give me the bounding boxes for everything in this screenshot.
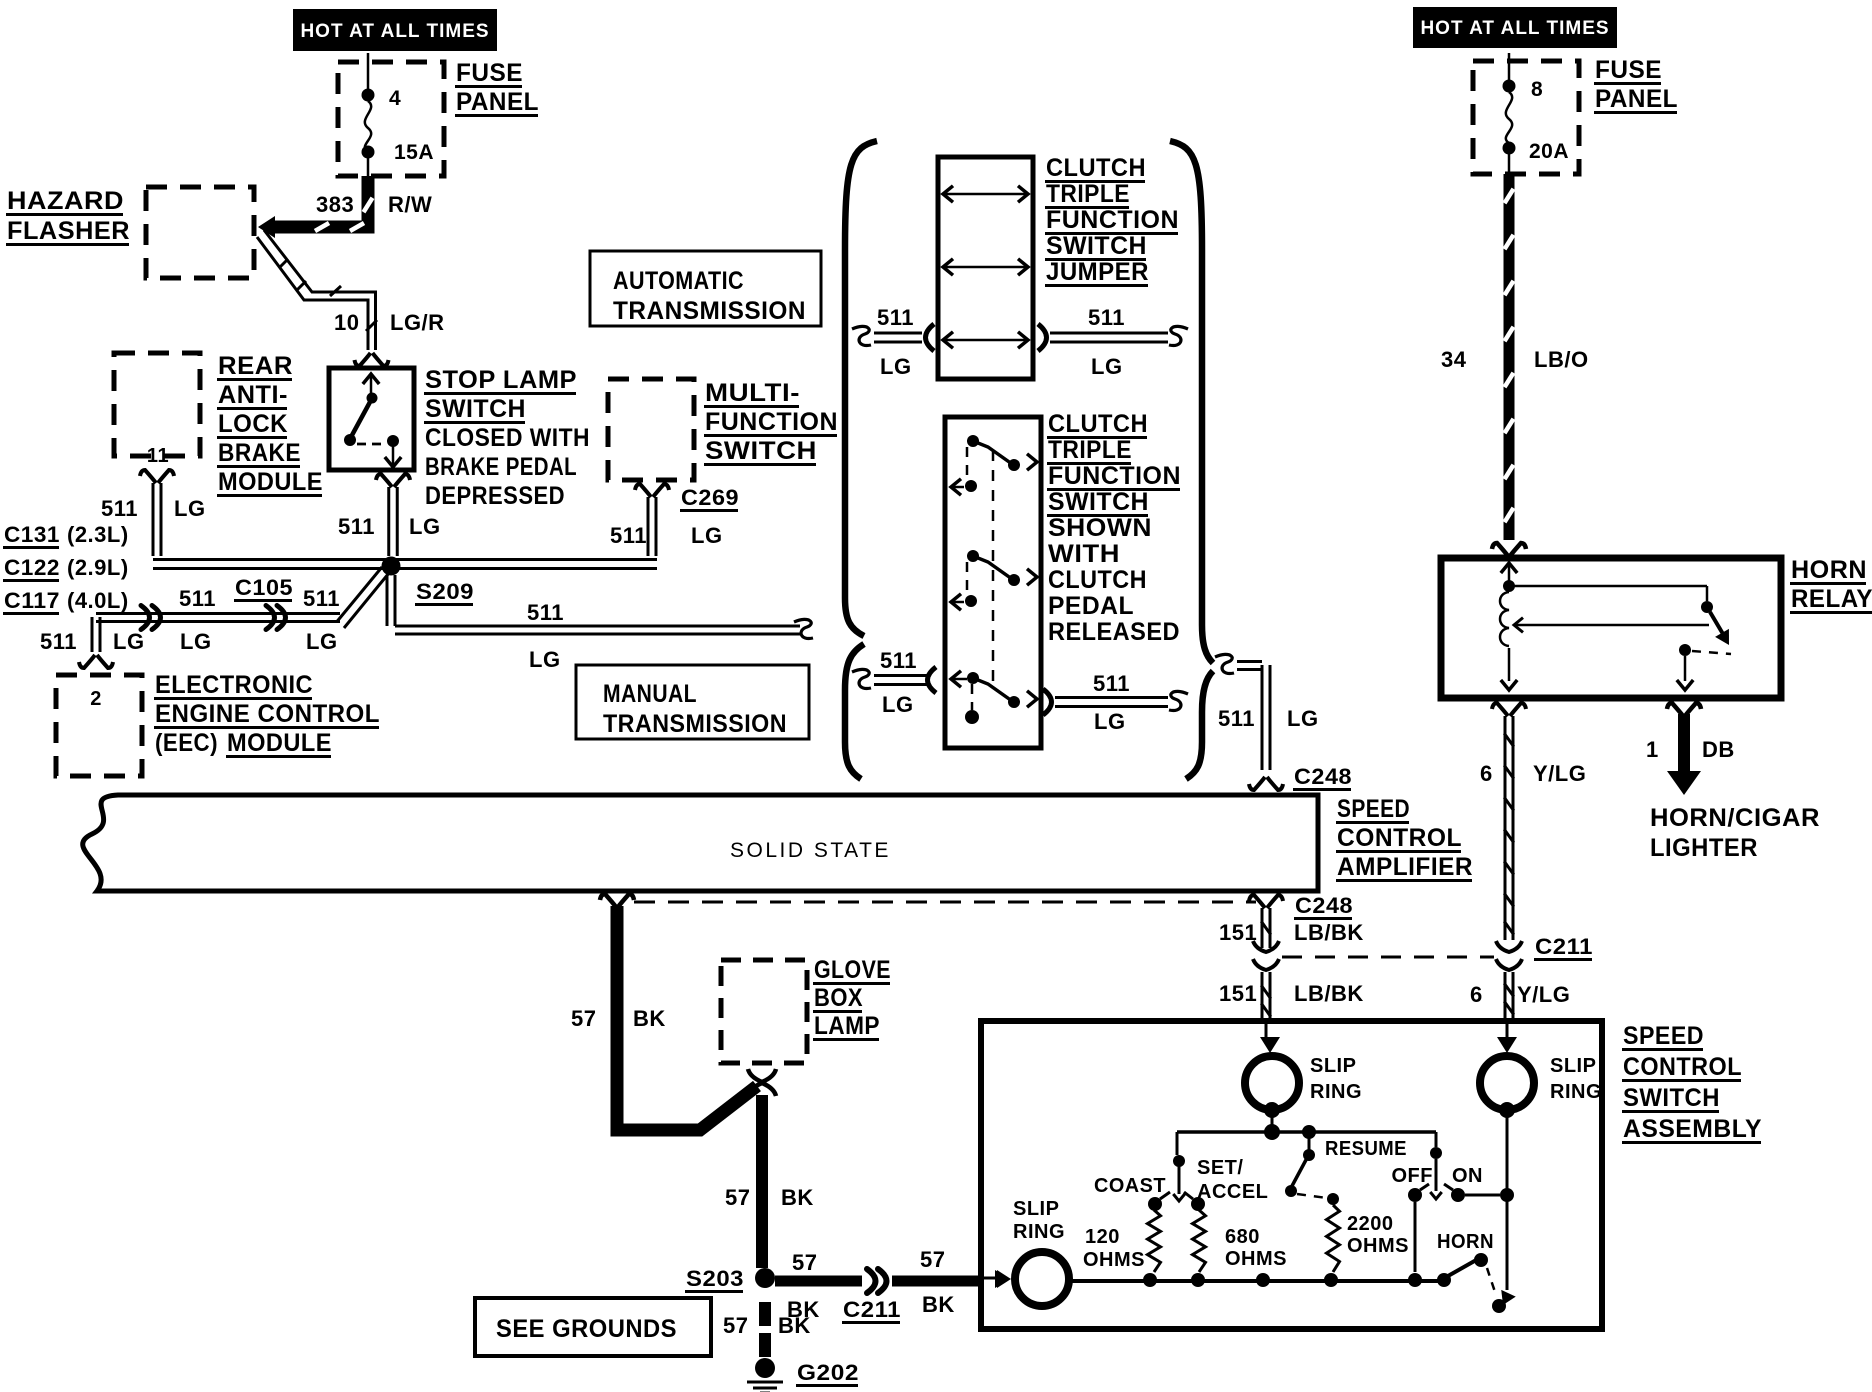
svg-text:C122: C122 xyxy=(4,555,60,580)
svg-text:C117: C117 xyxy=(4,588,60,613)
svg-text:LOCK: LOCK xyxy=(218,410,288,438)
svg-text:FUNCTION: FUNCTION xyxy=(705,408,838,436)
svg-text:RESUME: RESUME xyxy=(1325,1138,1407,1160)
svg-text:DEPRESSED: DEPRESSED xyxy=(425,482,565,510)
svg-text:SET/: SET/ xyxy=(1197,1157,1243,1179)
svg-text:LG: LG xyxy=(1287,706,1319,731)
svg-text:34: 34 xyxy=(1441,347,1467,372)
svg-text:57: 57 xyxy=(792,1250,817,1275)
svg-text:511: 511 xyxy=(179,586,216,611)
svg-text:SEE GROUNDS: SEE GROUNDS xyxy=(496,1315,677,1343)
svg-text:C211: C211 xyxy=(1535,934,1593,959)
svg-text:OHMS: OHMS xyxy=(1083,1249,1145,1271)
svg-text:511: 511 xyxy=(40,629,77,654)
svg-text:120: 120 xyxy=(1085,1226,1120,1248)
svg-text:C248: C248 xyxy=(1295,893,1353,918)
svg-text:FUNCTION: FUNCTION xyxy=(1048,462,1181,490)
svg-text:SWITCH: SWITCH xyxy=(1048,488,1149,516)
svg-text:PEDAL: PEDAL xyxy=(1048,592,1134,620)
svg-text:SLIP: SLIP xyxy=(1550,1055,1596,1077)
svg-text:PANEL: PANEL xyxy=(456,88,539,116)
svg-text:FUNCTION: FUNCTION xyxy=(1046,206,1179,234)
svg-text:WITH: WITH xyxy=(1048,540,1120,568)
svg-text:OHMS: OHMS xyxy=(1347,1235,1409,1257)
svg-text:10: 10 xyxy=(334,310,359,335)
svg-text:OFF: OFF xyxy=(1392,1165,1434,1187)
svg-text:511: 511 xyxy=(527,600,564,625)
svg-text:57: 57 xyxy=(723,1313,748,1338)
svg-text:20A: 20A xyxy=(1529,140,1569,163)
svg-text:DB: DB xyxy=(1702,737,1735,762)
svg-text:AMPLIFIER: AMPLIFIER xyxy=(1337,853,1473,881)
svg-text:HOT AT ALL TIMES: HOT AT ALL TIMES xyxy=(300,21,489,42)
svg-text:ACCEL: ACCEL xyxy=(1197,1181,1268,1203)
svg-text:C131: C131 xyxy=(4,522,60,547)
svg-text:MULTI-: MULTI- xyxy=(705,379,800,407)
svg-text:LAMP: LAMP xyxy=(814,1012,880,1040)
svg-text:JUMPER: JUMPER xyxy=(1046,258,1149,286)
svg-text:LG: LG xyxy=(174,496,206,521)
svg-text:CLUTCH: CLUTCH xyxy=(1046,154,1146,182)
svg-text:S203: S203 xyxy=(686,1266,744,1291)
svg-text:SLIP: SLIP xyxy=(1013,1198,1059,1220)
svg-text:TRIPLE: TRIPLE xyxy=(1048,436,1132,464)
svg-text:LG: LG xyxy=(306,629,338,654)
svg-text:511: 511 xyxy=(1088,305,1125,330)
svg-text:LB/BK: LB/BK xyxy=(1294,981,1364,1006)
svg-text:CONTROL: CONTROL xyxy=(1337,824,1462,852)
svg-text:BK: BK xyxy=(781,1185,814,1210)
svg-text:LG: LG xyxy=(113,629,145,654)
svg-text:CONTROL: CONTROL xyxy=(1623,1053,1742,1081)
svg-text:C211: C211 xyxy=(843,1297,901,1322)
svg-text:LG: LG xyxy=(409,514,441,539)
svg-text:(4.0L): (4.0L) xyxy=(67,588,129,613)
svg-text:RING: RING xyxy=(1013,1221,1065,1243)
svg-text:BOX: BOX xyxy=(814,984,863,1012)
svg-text:ON: ON xyxy=(1452,1165,1483,1187)
svg-text:HOT AT ALL TIMES: HOT AT ALL TIMES xyxy=(1420,18,1609,39)
svg-text:CLUTCH: CLUTCH xyxy=(1048,566,1147,594)
svg-text:PANEL: PANEL xyxy=(1595,85,1678,113)
svg-text:SWITCH: SWITCH xyxy=(425,395,526,423)
svg-text:HORN: HORN xyxy=(1437,1231,1494,1253)
svg-text:COAST: COAST xyxy=(1094,1175,1166,1197)
svg-text:511: 511 xyxy=(1218,706,1255,731)
svg-text:REAR: REAR xyxy=(218,352,293,380)
svg-text:Y/LG: Y/LG xyxy=(1517,982,1570,1007)
svg-text:2200: 2200 xyxy=(1347,1213,1394,1235)
svg-text:GLOVE: GLOVE xyxy=(814,956,891,984)
svg-text:57: 57 xyxy=(571,1006,596,1031)
svg-text:LIGHTER: LIGHTER xyxy=(1650,834,1758,862)
svg-text:BK: BK xyxy=(922,1292,955,1317)
svg-text:680: 680 xyxy=(1225,1226,1260,1248)
svg-text:BK: BK xyxy=(778,1313,811,1338)
svg-text:511: 511 xyxy=(1093,671,1130,696)
svg-text:2: 2 xyxy=(90,688,102,710)
svg-text:LG: LG xyxy=(691,523,723,548)
svg-text:C105: C105 xyxy=(235,575,293,600)
svg-text:LG: LG xyxy=(880,354,912,379)
svg-text:(2.9L): (2.9L) xyxy=(67,555,129,580)
svg-text:(EEC): (EEC) xyxy=(155,729,218,757)
svg-text:MANUAL: MANUAL xyxy=(603,680,697,708)
svg-text:C269: C269 xyxy=(681,485,739,510)
svg-text:FUSE: FUSE xyxy=(456,59,523,87)
svg-text:SPEED: SPEED xyxy=(1337,795,1410,823)
svg-text:OHMS: OHMS xyxy=(1225,1248,1287,1270)
svg-text:LG/R: LG/R xyxy=(390,310,445,335)
svg-text:ASSEMBLY: ASSEMBLY xyxy=(1623,1115,1762,1143)
svg-text:STOP LAMP: STOP LAMP xyxy=(425,366,577,394)
svg-text:CLOSED WITH: CLOSED WITH xyxy=(425,424,590,452)
svg-text:511: 511 xyxy=(303,586,340,611)
svg-text:MODULE: MODULE xyxy=(227,729,332,757)
svg-text:LG: LG xyxy=(882,692,914,717)
svg-text:BK: BK xyxy=(633,1006,666,1031)
svg-text:AUTOMATIC: AUTOMATIC xyxy=(613,267,744,295)
svg-text:SOLID STATE: SOLID STATE xyxy=(730,839,891,862)
svg-text:C248: C248 xyxy=(1294,764,1352,789)
svg-text:ELECTRONIC: ELECTRONIC xyxy=(155,671,313,699)
svg-text:FLASHER: FLASHER xyxy=(7,217,130,245)
svg-text:LG: LG xyxy=(1091,354,1123,379)
svg-text:R/W: R/W xyxy=(388,192,432,217)
svg-text:6: 6 xyxy=(1470,982,1483,1007)
svg-text:511: 511 xyxy=(877,305,914,330)
svg-text:CLUTCH: CLUTCH xyxy=(1048,410,1148,438)
svg-text:SWITCH: SWITCH xyxy=(1623,1084,1720,1112)
svg-text:TRANSMISSION: TRANSMISSION xyxy=(613,297,806,325)
svg-text:LG: LG xyxy=(1094,709,1126,734)
svg-text:(2.3L): (2.3L) xyxy=(67,522,129,547)
svg-text:HORN: HORN xyxy=(1791,556,1867,584)
svg-text:MODULE: MODULE xyxy=(218,468,323,496)
svg-text:RELAY: RELAY xyxy=(1791,585,1872,613)
svg-text:511: 511 xyxy=(610,523,647,548)
svg-text:511: 511 xyxy=(880,648,917,673)
svg-text:383: 383 xyxy=(316,192,354,217)
svg-text:ANTI-: ANTI- xyxy=(218,381,288,409)
svg-text:SHOWN: SHOWN xyxy=(1048,514,1152,542)
svg-text:TRIPLE: TRIPLE xyxy=(1046,180,1130,208)
svg-text:BRAKE: BRAKE xyxy=(218,439,301,467)
svg-text:151: 151 xyxy=(1219,920,1257,945)
svg-text:SLIP: SLIP xyxy=(1310,1055,1356,1077)
svg-text:S209: S209 xyxy=(416,579,474,604)
svg-text:LG: LG xyxy=(529,647,561,672)
svg-text:511: 511 xyxy=(338,514,375,539)
svg-text:SWITCH: SWITCH xyxy=(705,437,817,465)
svg-text:G202: G202 xyxy=(797,1360,859,1385)
svg-text:4: 4 xyxy=(389,87,401,110)
svg-text:SPEED: SPEED xyxy=(1623,1022,1704,1050)
svg-text:1: 1 xyxy=(1646,737,1659,762)
svg-text:511: 511 xyxy=(101,496,138,521)
svg-text:11: 11 xyxy=(147,445,169,467)
svg-text:BRAKE PEDAL: BRAKE PEDAL xyxy=(425,453,577,481)
svg-text:6: 6 xyxy=(1480,761,1493,786)
svg-text:HORN/CIGAR: HORN/CIGAR xyxy=(1650,804,1820,832)
svg-text:RING: RING xyxy=(1310,1081,1362,1103)
svg-text:LB/BK: LB/BK xyxy=(1294,920,1364,945)
svg-text:Y/LG: Y/LG xyxy=(1533,761,1586,786)
svg-text:RELEASED: RELEASED xyxy=(1048,618,1180,646)
svg-text:RING: RING xyxy=(1550,1081,1602,1103)
svg-text:SWITCH: SWITCH xyxy=(1046,232,1147,260)
svg-text:57: 57 xyxy=(725,1185,750,1210)
svg-text:8: 8 xyxy=(1531,78,1543,101)
svg-text:15A: 15A xyxy=(394,141,434,164)
svg-text:ENGINE CONTROL: ENGINE CONTROL xyxy=(155,700,380,728)
svg-text:TRANSMISSION: TRANSMISSION xyxy=(603,710,787,738)
svg-text:57: 57 xyxy=(920,1247,945,1272)
svg-text:151: 151 xyxy=(1219,981,1257,1006)
svg-text:LB/O: LB/O xyxy=(1534,347,1589,372)
svg-text:FUSE: FUSE xyxy=(1595,56,1662,84)
svg-text:LG: LG xyxy=(180,629,212,654)
svg-text:HAZARD: HAZARD xyxy=(7,187,124,215)
